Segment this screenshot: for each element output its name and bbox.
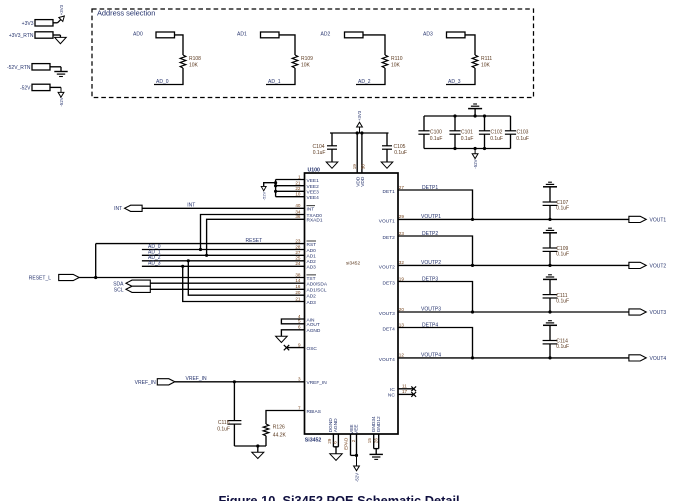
junction VREF_IN [233,380,236,383]
svg-text:9: 9 [298,342,301,347]
svg-text:20: 20 [295,290,301,295]
svg-text:VOUT1: VOUT1 [379,218,395,224]
svg-text:VOUT4: VOUT4 [650,356,667,362]
svg-text:C100: C100 [430,130,442,136]
wire AD_3 to pin 21 [183,266,305,301]
wire IC stub [398,388,413,390]
svg-text:VOUT4: VOUT4 [379,357,395,363]
svg-text:AD_3: AD_3 [448,79,461,85]
wire AD_0 [142,249,305,251]
svg-text:1: 1 [298,174,301,179]
svg-text:28: 28 [295,244,301,249]
svg-text:+3V3_RTN: +3V3_RTN [9,33,34,39]
svg-text:VEE: VEE [353,424,359,434]
svg-text:DET4: DET4 [383,327,396,333]
svg-text:VOUT3: VOUT3 [650,310,667,316]
wire RXAD1 to AD_1 [207,219,305,255]
svg-text:DET1: DET1 [383,189,396,195]
junction RXAD1 AD_1 [205,254,208,257]
wire R111 to net AD_3 [446,68,475,85]
svg-text:AD1: AD1 [307,254,317,260]
svg-text:INT: INT [307,207,315,213]
junction DETP4 VOUTP4 [471,356,474,359]
wire TXAD0 to AD_0 [201,215,305,250]
connector VOUT3 [629,309,646,315]
capacitor C114 0.1uF [548,356,551,359]
junction DETP3 VOUTP3 [471,310,474,313]
power symbol +3V3 arrow [59,14,66,21]
svg-text:VREF_IN: VREF_IN [186,376,208,382]
capacitor C116 0.1uF [233,382,235,421]
svg-text:0.1uF: 0.1uF [556,206,569,212]
svg-text:38: 38 [295,272,301,277]
svg-text:VOUTP4: VOUTP4 [421,352,441,358]
svg-text:-52V: -52V [20,85,31,91]
op-amp U100 Si3452 body [305,173,399,434]
svg-text:32: 32 [399,260,405,265]
svg-text:22: 22 [295,186,301,191]
ground inverted earth at C107 [543,186,557,188]
ground cap bank inverted earth [474,109,476,116]
svg-text:44.2K: 44.2K [273,433,287,439]
svg-text:19: 19 [399,276,405,281]
svg-text:AD1/SCL: AD1/SCL [307,288,327,294]
ground DGND triangle [330,454,342,461]
svg-text:0.1uF: 0.1uF [556,344,569,350]
svg-text:DETP1: DETP1 [422,185,438,191]
svg-text:Si3452: Si3452 [305,438,322,444]
wire R109 to net AD_1 [266,68,295,85]
power symbol -52V arrow at VEE bus [261,186,266,190]
svg-text:NC: NC [388,392,395,398]
svg-text:INT: INT [187,203,195,209]
capacitor C101 0.1uF [454,116,456,131]
junction EPAD VEE [355,454,358,457]
resistor R111 10K [472,55,478,68]
svg-text:+3V3: +3V3 [22,21,34,27]
wire VOUTP1 [398,218,629,220]
resistor R110 10K [382,55,388,68]
wire AD_3 [142,265,305,267]
wire AGND [281,330,304,336]
svg-text:VOUT2: VOUT2 [379,264,395,270]
svg-text:AD3: AD3 [307,265,317,271]
connector VOUT4 [629,355,646,361]
svg-text:-52V: -52V [59,97,64,106]
svg-text:VOUT3: VOUT3 [379,311,395,317]
svg-text:10K: 10K [391,62,401,68]
wire AD_1 [142,254,305,256]
power symbol +3V3 arrow above VDD [359,127,361,133]
svg-text:0.1uF: 0.1uF [430,136,443,142]
svg-text:OSC: OSC [307,346,318,352]
svg-text:7: 7 [298,405,301,410]
svg-text:-52V: -52V [355,473,360,482]
svg-text:26: 26 [374,438,379,444]
svg-text:IC: IC [390,387,395,393]
svg-text:U100: U100 [308,167,321,173]
capacitor C102 0.1uF [484,116,486,131]
svg-text:40: 40 [295,203,301,208]
svg-text:-52V_RTN: -52V_RTN [7,65,31,71]
svg-text:VEE1: VEE1 [307,178,320,184]
svg-text:VOUTP3: VOUTP3 [421,307,441,313]
svg-text:10K: 10K [189,62,199,68]
svg-text:-52V: -52V [262,191,267,200]
svg-text:SDA: SDA [113,282,124,288]
power symbol -52V arrow below VEE [356,455,358,466]
svg-text:AD0/SDA: AD0/SDA [307,282,328,288]
ground C104 triangle [326,162,338,168]
svg-text:23: 23 [399,231,405,236]
svg-text:R126: R126 [273,424,285,430]
capacitor C104 0.1uF [331,133,333,146]
svg-text:24: 24 [295,261,301,266]
svg-text:DETP3: DETP3 [422,276,438,282]
svg-text:6: 6 [333,441,338,444]
wire VDD rail [330,132,389,134]
svg-text:AD3: AD3 [307,300,317,306]
wire AD3 to R111 [465,35,475,55]
svg-text:TST: TST [307,276,316,282]
power symbol -52V arrow [60,87,62,92]
ground C105 triangle [381,162,393,168]
capacitor C109 0.1uF [548,264,551,267]
svg-text:10K: 10K [481,62,491,68]
svg-text:DET3: DET3 [383,281,396,287]
svg-text:6: 6 [298,325,301,330]
svg-text:R108: R108 [189,56,201,62]
svg-text:2: 2 [351,439,356,442]
connector VOUT2 [629,262,646,268]
svg-text:AGND: AGND [307,328,321,334]
svg-text:+3V3: +3V3 [59,4,64,15]
svg-text:VOUT1: VOUT1 [650,217,667,223]
connector VOUT1 [629,216,646,222]
wire VOUTP3 [398,311,629,313]
svg-text:AD2: AD2 [307,259,317,265]
wire NC stub [398,393,413,395]
wire AD2 to R110 [363,35,385,55]
svg-text:25: 25 [295,256,301,261]
svg-text:0.1uF: 0.1uF [461,136,474,142]
ground GND34 GND12 earth [370,453,383,455]
ground inverted earth at C111 [543,278,557,280]
svg-text:0.1uF: 0.1uF [394,150,407,156]
svg-text:23: 23 [295,238,301,243]
no-connect IC [411,386,416,391]
svg-text:AD2: AD2 [307,294,317,300]
ground -52V_RTN earth [60,67,62,72]
svg-text:C101: C101 [461,130,473,136]
svg-text:C116: C116 [218,420,230,426]
svg-text:15: 15 [367,438,372,444]
svg-text:30: 30 [361,164,366,170]
svg-text:R111: R111 [481,56,492,62]
capacitor C100 0.1uF [423,116,425,131]
ground +3V3_RTN triangle [59,35,61,37]
svg-text:10: 10 [295,192,301,197]
svg-text:VOUTP1: VOUTP1 [421,214,441,220]
svg-text:AD2: AD2 [321,31,331,37]
svg-text:14: 14 [295,278,301,283]
wire AD0 to R108 [175,35,184,55]
svg-text:INT: INT [114,206,122,212]
svg-text:Figure 10. Si3452 POE Schemati: Figure 10. Si3452 POE Schematic Detail [218,493,459,501]
svg-text:VEE3: VEE3 [307,190,320,196]
wire R126 to RBIAS [266,411,305,425]
svg-text:13: 13 [399,322,405,327]
wire AD1 to R109 [279,35,295,55]
svg-text:17: 17 [402,389,408,394]
svg-text:27: 27 [399,185,405,190]
junction TXAD0 AD_0 [199,248,202,251]
svg-text:Address selection: Address selection [97,9,155,18]
svg-text:EPAD: EPAD [344,437,349,450]
svg-text:27: 27 [295,250,301,255]
svg-text:12: 12 [399,353,405,358]
svg-text:RXAD1: RXAD1 [307,218,323,224]
wire DETP3 [398,282,473,313]
svg-text:10K: 10K [301,62,311,68]
svg-text:0.1uF: 0.1uF [490,136,503,142]
svg-text:R110: R110 [391,56,403,62]
svg-text:RESET_L: RESET_L [29,276,51,282]
svg-text:29: 29 [327,438,332,444]
svg-text:0.1uF: 0.1uF [313,150,326,156]
junction RESET_L [94,276,97,279]
svg-text:16: 16 [295,284,301,289]
capacitor C107 0.1uF [548,218,551,221]
svg-text:0.1uF: 0.1uF [516,136,529,142]
capacitor C105 0.1uF [386,133,388,146]
svg-text:si3452: si3452 [346,260,360,266]
wire VEE to -52V arrow [264,183,276,187]
junction AD_3 branch [181,265,184,268]
svg-text:11: 11 [402,383,407,388]
junction DETP2 VOUTP2 [471,264,474,267]
wire DETP1 [398,190,473,219]
junction VEE bus [274,184,277,187]
svg-text:+3V3: +3V3 [357,110,362,121]
svg-text:AD1: AD1 [237,31,247,37]
wire RESET riser [95,244,97,278]
wire VEE bus [276,179,305,181]
address selection dashed box [92,9,534,98]
svg-text:21: 21 [295,296,301,301]
capacitor C103 0.1uF [510,116,512,131]
junction AD_2 branch [187,259,190,262]
wire DGND AGND join [333,446,338,448]
svg-text:AD0: AD0 [133,31,143,37]
svg-text:VEE2: VEE2 [307,184,320,190]
ground triangle at C116/R126 [257,446,259,452]
svg-text:GND12: GND12 [376,416,382,432]
junction DETP1 VOUTP1 [471,218,474,221]
ground inverted earth at C109 [543,232,557,234]
wire DETP2 [398,236,473,265]
svg-text:0.1uF: 0.1uF [217,427,230,433]
svg-text:0.1uF: 0.1uF [556,298,569,304]
svg-text:AD0: AD0 [307,248,317,254]
svg-text:RBIAS: RBIAS [307,409,321,415]
junction [453,114,456,117]
svg-text:R109: R109 [301,56,313,62]
wire R108 to net AD_0 [154,68,183,85]
svg-text:VOUTP2: VOUTP2 [421,260,441,266]
wire VDD pin 30 [361,133,363,173]
capacitor C111 0.1uF [548,310,551,313]
svg-text:3: 3 [298,377,301,382]
svg-text:AOUT: AOUT [307,322,320,328]
resistor R126 44.2K [265,436,267,446]
wire SCL [150,288,304,290]
svg-text:RST: RST [307,242,317,248]
wire OSC stub [287,347,305,349]
wire VOUTP4 [398,357,629,359]
junction cap bank stem [474,114,477,117]
svg-text:C103: C103 [517,130,529,136]
svg-text:AD3: AD3 [423,31,433,37]
wire AIN AOUT loop [281,319,304,324]
svg-text:VOUT2: VOUT2 [650,263,667,269]
wire GND34 GND12 join [374,448,379,450]
svg-text:AD_2: AD_2 [358,79,371,85]
ground AGND triangle [276,336,288,342]
svg-text:SCL: SCL [114,288,124,294]
svg-text:DET2: DET2 [383,235,396,241]
no-connect OSC [284,345,289,350]
svg-text:RESET: RESET [246,238,263,244]
wire DETP4 [398,328,473,358]
svg-text:VDD: VDD [360,176,366,187]
wire cap bank rails [424,115,511,117]
svg-text:DETP4: DETP4 [422,322,438,328]
ground inverted earth at C114 [543,324,557,326]
svg-text:VREF_IN: VREF_IN [135,380,157,386]
svg-text:21: 21 [295,181,301,186]
svg-text:19: 19 [352,164,357,170]
junction ground at C116/R126 [256,444,259,447]
svg-text:29: 29 [399,214,405,219]
svg-text:AD_0: AD_0 [156,79,169,85]
power symbol -52V arrow below cap bank [474,149,476,155]
svg-text:0.1uF: 0.1uF [556,252,569,258]
svg-text:AD_3: AD_3 [148,261,161,267]
svg-text:DETP2: DETP2 [422,231,438,237]
svg-text:C102: C102 [491,130,503,136]
wire RESET to pin 23 [96,243,305,245]
wire C116 to R126 [234,445,266,447]
svg-text:-52V: -52V [473,159,478,168]
wire SDA [150,282,304,284]
svg-text:AGND: AGND [333,418,339,432]
svg-text:VREF_IN: VREF_IN [307,380,328,386]
wire RESET_L [79,277,96,279]
resistor R108 10K [180,55,186,68]
junction [483,114,486,117]
wire RESET_L to pin 38 [96,277,305,279]
no-connect NC [411,392,416,397]
svg-text:VEE4: VEE4 [307,195,320,201]
wire VREF_IN [175,381,305,383]
resistor R109 10K [292,55,298,68]
wire VOUTP2 [398,264,629,266]
wire AD_2 to pin 20 [188,261,304,295]
wire R110 to net AD_2 [356,68,385,85]
svg-text:AD_1: AD_1 [268,79,281,85]
wire VDD pin 19 [356,133,358,173]
svg-text:20: 20 [399,307,405,312]
wire AD_2 [142,260,305,262]
wire INT [142,207,304,209]
